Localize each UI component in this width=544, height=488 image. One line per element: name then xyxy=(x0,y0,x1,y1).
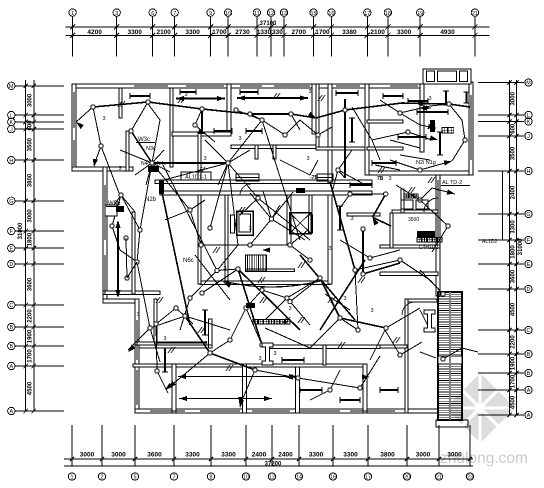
svg-text:2200: 2200 xyxy=(28,309,34,323)
wire mid-right diag c xyxy=(373,217,392,226)
wall lower-left sill xyxy=(135,342,156,345)
svg-text:12: 12 xyxy=(268,11,274,17)
outer wall top xyxy=(72,84,422,88)
wire lift riser 5 xyxy=(272,219,306,240)
grid line G (right) xyxy=(478,213,524,215)
svg-text:37100: 37100 xyxy=(260,21,277,27)
svg-text:J: J xyxy=(527,134,530,140)
svg-text:11: 11 xyxy=(254,11,260,17)
grid line B (right) xyxy=(478,372,524,374)
wire bc k1 xyxy=(262,290,287,298)
panel box 1 xyxy=(148,166,159,172)
svg-text:A: A xyxy=(9,364,13,370)
junction boxes xyxy=(91,100,467,392)
junction xyxy=(418,168,422,172)
wire k11 xyxy=(290,230,308,245)
panel box 3 xyxy=(296,188,305,193)
grid line 12 (bottom) xyxy=(271,425,273,466)
arrow long left xyxy=(285,374,293,379)
svg-text:3300: 3300 xyxy=(185,29,200,36)
outer wall left upper xyxy=(72,84,76,171)
wall partition x316 xyxy=(316,84,319,150)
wire bl 3 xyxy=(185,316,210,353)
grid line 12 (top) xyxy=(270,17,272,56)
wire left drop xyxy=(137,230,140,262)
wire top room c xyxy=(291,114,300,130)
wire rt b xyxy=(420,125,436,128)
wire arc 6 xyxy=(290,278,320,302)
svg-text:2200: 2200 xyxy=(511,335,517,349)
svg-text:3: 3 xyxy=(328,246,331,252)
wire left chain 2 xyxy=(110,195,121,211)
junction xyxy=(353,268,357,272)
svg-text:23: 23 xyxy=(467,475,473,481)
bold arrow wire top room 1 xyxy=(176,98,225,100)
wire lift riser 4 xyxy=(263,191,272,219)
junction xyxy=(260,288,264,292)
arrow top chain bend xyxy=(308,112,316,118)
svg-text:3000: 3000 xyxy=(28,93,34,107)
wire mid-right diag a xyxy=(340,194,350,208)
junction xyxy=(244,306,248,310)
grid line 11 (top) xyxy=(256,17,258,56)
svg-text:B: B xyxy=(527,371,531,377)
arrow right room 3 xyxy=(444,161,452,166)
wall left-mid right xyxy=(132,212,135,294)
svg-text:3: 3 xyxy=(223,266,226,272)
grid line 10 (bottom) xyxy=(245,425,247,466)
wire left k2 xyxy=(112,226,120,250)
svg-text:3000: 3000 xyxy=(111,452,126,459)
wire mid right xyxy=(340,240,400,258)
svg-text:G: G xyxy=(9,199,13,205)
wire bc k3 xyxy=(330,370,340,390)
junction xyxy=(200,291,204,295)
junction xyxy=(384,326,388,330)
junction xyxy=(129,129,133,133)
svg-text:E: E xyxy=(9,246,13,252)
wall core right low xyxy=(328,195,332,284)
panel box 2 xyxy=(159,180,164,194)
wire rt a xyxy=(380,100,430,113)
wire to balcony xyxy=(76,107,93,122)
wire top mid xyxy=(300,120,332,135)
svg-text:2700: 2700 xyxy=(292,29,307,36)
junction xyxy=(338,316,342,320)
wire mid 3 xyxy=(338,170,362,183)
svg-text:-7B: -7B xyxy=(310,175,318,181)
grid line M (right) xyxy=(478,82,524,84)
wire knot d xyxy=(228,163,258,198)
svg-text:5: 5 xyxy=(134,475,137,481)
wire knot h xyxy=(152,163,190,210)
wire bl 6 xyxy=(240,370,255,405)
arrow right 6b xyxy=(447,189,455,194)
watermark pinwheel logo xyxy=(445,373,515,443)
svg-text:G: G xyxy=(526,212,530,218)
wall lower-left rooms top xyxy=(139,345,212,348)
svg-text:3300: 3300 xyxy=(127,29,142,36)
svg-text:1: 1 xyxy=(71,475,74,481)
wire to stair xyxy=(430,280,443,294)
wire lift riser 3 xyxy=(272,192,294,219)
outer wall right unit bottom xyxy=(367,171,473,175)
wire lamp drop xyxy=(131,102,148,131)
grid line 15 (top) xyxy=(313,17,315,56)
panel blob W5b xyxy=(116,206,124,212)
wire bl 8 xyxy=(150,328,160,362)
outer wall left mid xyxy=(103,167,107,303)
svg-text:9: 9 xyxy=(209,11,212,17)
wire right 8 xyxy=(400,260,430,280)
wire top feed xyxy=(236,110,262,120)
wire bl 10 xyxy=(246,308,262,345)
wire right 6b xyxy=(420,188,455,200)
junction xyxy=(188,208,192,212)
windows on outer walls xyxy=(74,86,471,411)
lamp bar end ticks xyxy=(130,89,470,403)
junction xyxy=(99,144,103,148)
arrow long left2 xyxy=(178,374,186,379)
grid line A (left) xyxy=(16,365,65,367)
svg-text:2400: 2400 xyxy=(278,452,293,459)
svg-text:W5b: W5b xyxy=(108,201,121,207)
wall ul partition a xyxy=(119,88,122,118)
wire diag right 2 xyxy=(355,270,358,330)
wall right rooms xyxy=(380,272,438,276)
junction xyxy=(146,100,150,104)
outer wall step 2 xyxy=(103,299,139,303)
arrow balcony left xyxy=(223,282,231,288)
grid line D (right) xyxy=(478,288,524,290)
wire bl k1 xyxy=(156,308,176,324)
grid line 8 (bottom) xyxy=(210,425,212,466)
svg-text:31000: 31000 xyxy=(518,238,524,255)
svg-text:N4b: N4b xyxy=(141,161,150,167)
outer wall right upper xyxy=(469,82,473,175)
arrow rt b xyxy=(428,124,436,129)
wire knot g xyxy=(152,162,228,164)
wire br k2 xyxy=(385,330,400,355)
wire lift riser xyxy=(250,219,272,245)
lamp bars xyxy=(130,91,467,400)
wire rt d xyxy=(400,155,430,160)
junction xyxy=(183,314,187,318)
svg-text:N3c: N3c xyxy=(146,146,156,152)
arrow long2 left xyxy=(179,396,187,401)
wire bl k6 xyxy=(230,308,246,340)
junction xyxy=(174,306,178,310)
svg-text:4500: 4500 xyxy=(511,395,517,409)
svg-text:C: C xyxy=(527,328,531,334)
wire knot f xyxy=(228,163,238,245)
junction xyxy=(154,322,158,326)
wire bl k5 xyxy=(210,340,230,353)
right dimension column xyxy=(478,79,532,419)
wire arc 2 xyxy=(202,269,238,293)
label meter room xyxy=(404,194,408,198)
svg-text:7: 7 xyxy=(173,475,176,481)
wire k10 xyxy=(272,205,281,219)
junction xyxy=(215,268,219,272)
junction xyxy=(260,343,264,347)
svg-text:1800: 1800 xyxy=(28,232,34,246)
svg-text:B: B xyxy=(9,344,13,350)
wire top run 1 xyxy=(93,102,250,114)
junction xyxy=(234,108,238,112)
svg-text:21: 21 xyxy=(472,11,478,17)
wire left room 2 xyxy=(101,146,119,193)
wall core vertical xyxy=(328,84,332,183)
svg-text:16: 16 xyxy=(330,475,336,481)
junction xyxy=(406,130,410,134)
wire long diag 3 xyxy=(163,165,217,271)
svg-text:16: 16 xyxy=(328,11,334,17)
wire bl 2 xyxy=(150,316,185,328)
window upper corridor 2 xyxy=(317,174,333,181)
svg-text:8: 8 xyxy=(210,475,213,481)
wire left room xyxy=(94,146,101,165)
grid line 3 (top) xyxy=(116,17,118,56)
svg-text:7B: 7B xyxy=(377,176,384,182)
svg-text:3300: 3300 xyxy=(511,220,517,234)
wire rt k2 xyxy=(430,104,449,106)
wire bold diag 1 xyxy=(300,255,355,320)
svg-text:3: 3 xyxy=(350,216,353,222)
arrow long2 right xyxy=(264,396,272,401)
wall ul partition b xyxy=(126,131,129,171)
wall left unit bottom xyxy=(103,291,160,295)
wire left chain low xyxy=(126,238,127,278)
wall rt room b xyxy=(367,120,403,123)
wire top room b xyxy=(250,114,262,120)
wire k9 xyxy=(332,170,338,192)
wire br k1 xyxy=(420,310,430,330)
parapet block top right xyxy=(423,69,471,84)
wire bl diag xyxy=(195,255,230,300)
junction xyxy=(283,133,287,137)
junction xyxy=(188,296,192,300)
svg-text:2: 2 xyxy=(101,475,104,481)
junction xyxy=(356,328,360,332)
svg-text:21: 21 xyxy=(436,475,442,481)
outer wall bottom xyxy=(135,409,438,413)
junction xyxy=(236,267,240,271)
svg-text:N4c: N4c xyxy=(157,161,166,167)
grid line 13 (top) xyxy=(283,17,285,56)
wire bl k3 xyxy=(156,324,157,371)
svg-text:3000: 3000 xyxy=(80,452,95,459)
wall mid top xyxy=(316,147,367,150)
wall lobby bottom xyxy=(200,281,330,285)
wire left chain xyxy=(121,195,140,230)
elevator shaft (X box) xyxy=(290,213,312,234)
bold vertical wire riser xyxy=(201,109,203,132)
svg-text:3: 3 xyxy=(118,166,121,172)
bottom dimension band xyxy=(64,425,474,481)
svg-text:3600: 3600 xyxy=(28,277,34,291)
label AL1D1-1 xyxy=(181,172,211,180)
two-way arrow symbol xyxy=(419,105,427,110)
wire left k1 xyxy=(112,195,121,226)
wire k4 xyxy=(218,163,228,185)
svg-text:3: 3 xyxy=(238,136,241,142)
junction mid chain xyxy=(124,236,128,240)
wire k8 xyxy=(310,160,318,175)
grid line 21 (top) xyxy=(474,17,476,56)
svg-text:330: 330 xyxy=(272,29,283,36)
grid line 2 (bottom) xyxy=(101,425,103,466)
grid line 6 (top) xyxy=(152,17,154,56)
svg-text:D: D xyxy=(9,262,13,268)
junction xyxy=(441,357,445,361)
central staircase hatch xyxy=(246,255,267,271)
grid line J (left) xyxy=(16,128,65,130)
junction xyxy=(150,161,154,165)
wire bc 6 xyxy=(386,308,420,328)
wall ul partition 2 xyxy=(170,88,173,167)
wire stair branch xyxy=(420,270,443,294)
junction xyxy=(358,386,362,390)
svg-text:37200: 37200 xyxy=(265,461,282,467)
grid line 23 (bottom) xyxy=(469,425,471,466)
arrow long right2 xyxy=(289,374,297,379)
wire right 4 xyxy=(396,185,420,200)
label unit panel xyxy=(417,238,421,242)
wire k5 xyxy=(165,210,190,220)
wire knot i4 xyxy=(152,163,170,172)
junction xyxy=(447,102,451,106)
arrow bc xyxy=(239,400,244,408)
grid line H (right) xyxy=(478,170,524,172)
arrow mid-right xyxy=(373,217,379,225)
top dimension band xyxy=(66,9,489,56)
svg-text:AL TD-2: AL TD-2 xyxy=(442,180,462,186)
svg-text:N6c: N6c xyxy=(183,258,194,264)
grid line 17 (bottom) xyxy=(367,425,369,466)
wall lower-left room xyxy=(154,299,157,348)
wall lower stub xyxy=(323,345,326,365)
wire long horizontal 2 xyxy=(179,398,272,400)
svg-text:3: 3 xyxy=(163,336,166,342)
door arc right room xyxy=(402,302,415,315)
junction xyxy=(228,338,232,342)
arrow bl xyxy=(128,345,136,353)
svg-text:A: A xyxy=(527,388,531,394)
junction xyxy=(226,161,230,165)
wire knot j xyxy=(190,210,201,245)
wall top room right xyxy=(312,84,316,134)
svg-text:4500: 4500 xyxy=(511,302,517,316)
svg-text:3: 3 xyxy=(428,96,431,102)
grid line 18 (top) xyxy=(387,17,389,56)
arrow top right run xyxy=(415,101,423,106)
grid line J (right) xyxy=(478,135,524,137)
arrow bl 2 xyxy=(165,383,173,390)
junction xyxy=(110,224,114,228)
junction xyxy=(336,168,340,172)
window upper corridor 1 xyxy=(236,174,259,181)
grid line 21 (bottom) xyxy=(438,425,440,466)
grid line 7 (bottom) xyxy=(173,425,175,466)
right staircase hatch xyxy=(438,292,462,420)
wall top left room bottom xyxy=(172,132,231,136)
svg-text:2100: 2100 xyxy=(156,29,171,36)
door jamb lower-left xyxy=(209,319,213,348)
svg-text:3300: 3300 xyxy=(221,452,236,459)
arrow long right xyxy=(362,374,370,379)
arrow right room xyxy=(430,135,438,140)
wall lobby right xyxy=(287,195,291,245)
wire right 7 xyxy=(355,260,400,270)
wire diag right xyxy=(330,182,355,270)
svg-text:C: C xyxy=(9,303,13,309)
svg-text:3: 3 xyxy=(308,89,311,95)
wire bc 5 xyxy=(340,318,386,328)
junction xyxy=(296,376,300,380)
wire to knot xyxy=(131,131,152,163)
panel box top-right xyxy=(430,120,435,132)
grid line 17 (top) xyxy=(366,17,368,56)
grid line E (left) xyxy=(16,247,65,249)
wire arc 4 xyxy=(190,271,217,299)
junction xyxy=(148,326,152,330)
wire rt c xyxy=(390,140,420,148)
wire bc 8 xyxy=(360,356,380,388)
svg-text:3: 3 xyxy=(204,341,207,347)
svg-text:3: 3 xyxy=(136,312,139,318)
arrow into stair xyxy=(262,247,270,252)
wall lower-left room 3 xyxy=(243,364,247,413)
wire knot i3 xyxy=(146,163,152,185)
arrow bl 4 xyxy=(168,381,176,388)
wire bc 2 xyxy=(320,278,340,318)
wire bl k2 xyxy=(176,308,193,324)
label emergency panel xyxy=(253,319,258,324)
arrow balcony xyxy=(76,122,84,129)
wire right 6 xyxy=(432,226,448,252)
svg-text:M: M xyxy=(526,81,531,87)
grid line L (left) xyxy=(16,114,65,116)
svg-text:1700: 1700 xyxy=(315,29,330,36)
wire long horizontal xyxy=(178,376,297,378)
wire cross xyxy=(258,198,310,240)
wall lower rooms xyxy=(133,364,365,367)
wall corridor top xyxy=(155,180,372,184)
grid line 1 (top) xyxy=(72,17,74,56)
arrow bl 6 xyxy=(238,397,243,405)
grid line B (left) xyxy=(16,326,65,328)
wire knot e xyxy=(210,163,228,228)
wire bl 9 xyxy=(185,316,230,330)
panel box AL1D2 xyxy=(417,231,435,237)
svg-text:3300: 3300 xyxy=(185,452,200,459)
junction xyxy=(200,107,204,111)
svg-text:H: H xyxy=(527,169,531,175)
junction xyxy=(248,112,252,116)
junction xyxy=(269,217,273,221)
wire rt k3 xyxy=(372,140,380,160)
stair rail bar xyxy=(246,269,295,272)
svg-text:E: E xyxy=(527,262,531,268)
svg-text:1700: 1700 xyxy=(511,374,517,388)
junction xyxy=(441,292,445,296)
svg-text:10: 10 xyxy=(225,11,231,17)
wire k7 xyxy=(240,198,258,215)
junction xyxy=(256,196,260,200)
wire rt k1 xyxy=(400,113,420,125)
svg-text:20: 20 xyxy=(404,475,410,481)
